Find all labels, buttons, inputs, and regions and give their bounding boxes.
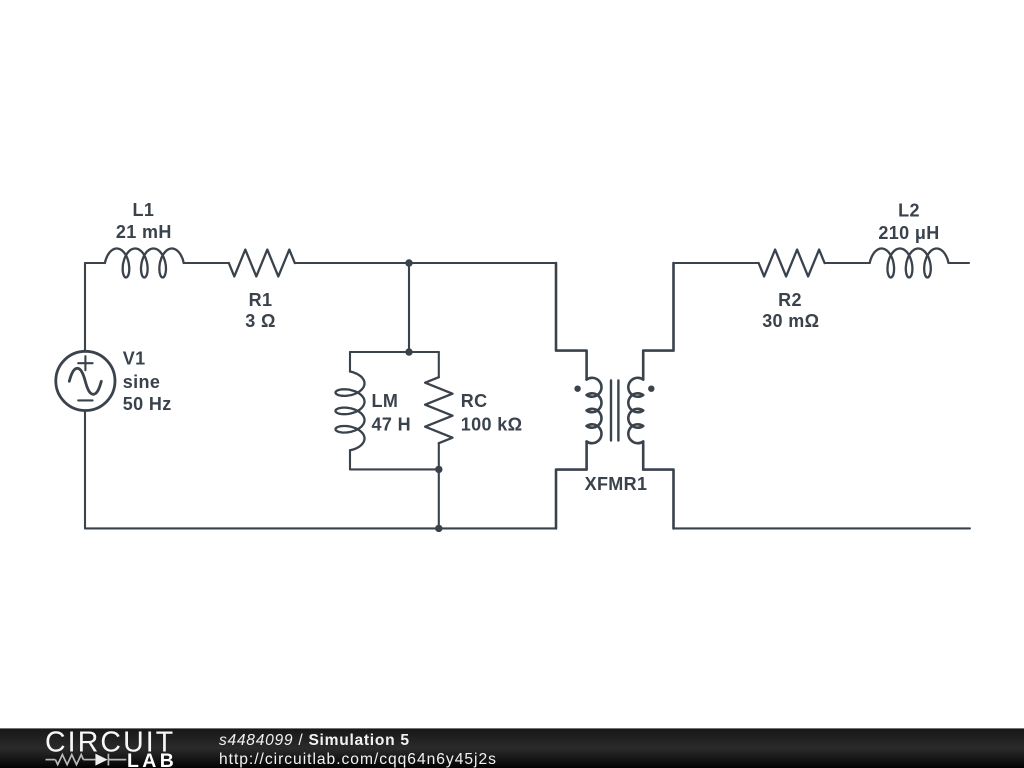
wire mid vertical bottom	[438, 469, 440, 528]
wire R1 to transformer	[295, 262, 556, 264]
wire R2 to L2	[825, 262, 870, 264]
svg-text:s4484099 / Simulation 5: s4484099 / Simulation 5	[219, 732, 410, 749]
voltage source V1	[56, 351, 115, 410]
svg-text:LAB: LAB	[127, 750, 177, 768]
wire parallel bottom rail	[350, 468, 439, 470]
svg-text:3 Ω: 3 Ω	[245, 311, 276, 331]
svg-text:R1: R1	[249, 290, 273, 310]
svg-text:50 Hz: 50 Hz	[123, 394, 172, 414]
label R1 value	[245, 290, 276, 331]
label L2 value	[878, 200, 939, 243]
wire RC lead top	[438, 352, 440, 377]
wire bottom right	[674, 527, 970, 529]
wire RC lead bottom	[438, 443, 440, 469]
svg-text:47 H: 47 H	[372, 414, 411, 434]
svg-text:LM: LM	[372, 391, 399, 411]
wire left vertical upper	[84, 263, 86, 352]
inductor L1	[105, 249, 184, 278]
label RC value	[461, 391, 523, 435]
svg-text:R2: R2	[778, 290, 802, 310]
transformer XFMR1	[556, 263, 674, 528]
resistor R1	[229, 250, 295, 277]
svg-text:210 μH: 210 μH	[878, 223, 939, 243]
svg-text:L2: L2	[898, 200, 920, 220]
node junction parallel bottom	[435, 466, 442, 473]
node junction parallel top	[405, 348, 412, 355]
svg-text:RC: RC	[461, 391, 488, 411]
logo resistor-diode wire	[46, 754, 127, 766]
wire LM lead top	[349, 352, 351, 372]
resistor R2	[759, 250, 825, 277]
svg-text:V1: V1	[123, 348, 146, 368]
label LM value	[372, 391, 411, 435]
node junction top	[405, 259, 412, 266]
label XFMR1	[585, 474, 648, 494]
wire left vertical lower	[84, 411, 86, 528]
wire top right	[674, 262, 759, 264]
resistor RC	[425, 377, 452, 443]
inductor L2	[870, 249, 949, 278]
node junction bottom wire	[435, 525, 442, 532]
svg-text:http://circuitlab.com/cqq64n6y: http://circuitlab.com/cqq64n6y45j2s	[219, 751, 497, 768]
wire bottom left	[85, 527, 556, 529]
wire parallel top rail	[350, 351, 439, 353]
wire top-left lead	[85, 262, 105, 264]
svg-text:21 mH: 21 mH	[116, 222, 172, 242]
label V1 value	[123, 348, 172, 414]
inductor LM	[336, 372, 365, 451]
svg-text:100 kΩ: 100 kΩ	[461, 414, 523, 434]
svg-text:L1: L1	[133, 200, 155, 220]
wire LM lead bottom	[349, 450, 351, 469]
wire mid vertical top	[408, 263, 410, 352]
svg-text:sine: sine	[123, 372, 160, 392]
wire L2 stub	[949, 262, 970, 264]
svg-text:30 mΩ: 30 mΩ	[762, 311, 819, 331]
wire L1 to R1	[184, 262, 229, 264]
svg-text:XFMR1: XFMR1	[585, 474, 648, 494]
label L1 value	[116, 200, 172, 242]
label R2 value	[762, 290, 819, 331]
